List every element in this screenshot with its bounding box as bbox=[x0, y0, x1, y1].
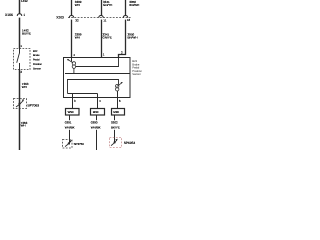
splice SP3750 dashed box bbox=[63, 140, 73, 149]
switch contact upper stub bbox=[19, 49, 21, 54]
splice SP3750 symbol curve bbox=[65, 141, 71, 146]
wire W4 circuit 3050 top segment bbox=[125, 0, 127, 15]
wire W1 to bottom edge bbox=[19, 109, 21, 151]
potentiometer R2 wiper arrowhead bbox=[121, 82, 123, 84]
potentiometer R2 wiper arrow shaft bbox=[117, 83, 122, 86]
label patch for wire W7 bbox=[111, 120, 125, 130]
wire W3 circuit 3341 top segment bbox=[101, 0, 103, 15]
splice SP6954 symbol arrowhead bbox=[115, 139, 118, 141]
wire W7 lower segment circuit 0302 bbox=[114, 115, 116, 138]
potentiometer R1 entry stub from pin 4 bbox=[71, 58, 73, 62]
component box B22 brake pedal position sensor (solid outline) bbox=[64, 58, 131, 98]
potentiometer R2 coil turn 1 bbox=[116, 84, 119, 87]
internal rail D joining pins 3 and 4 bbox=[68, 93, 98, 95]
wire W1 from connector X106 down to sensor box bbox=[19, 18, 21, 49]
potentiometer R1 wiper arrow shaft bbox=[68, 60, 73, 63]
pass-through grommet box M90 (right) bbox=[112, 109, 125, 116]
splice SP6954 symbol curve bbox=[111, 140, 117, 146]
internal wire from pin 2 to potentiometer R1 bbox=[76, 58, 119, 67]
wire W2 circuit 3309 top segment bbox=[71, 0, 73, 15]
pass-through grommet box W90 bbox=[66, 109, 80, 116]
label patch for wire W5 bbox=[64, 120, 78, 130]
wire W6 lower segment circuit 0300 bbox=[96, 115, 98, 150]
wire W2 below X203 to sensor box pin 4 bbox=[71, 20, 73, 58]
connector arc X203 on wire W2 bbox=[69, 15, 73, 17]
connector arc X203 on wire W3 bbox=[99, 15, 103, 17]
potentiometer R1 coil turn 2 bbox=[72, 65, 75, 68]
splice SP7063 symbol arrowhead bbox=[22, 99, 25, 101]
splice SP6954 junction dot bbox=[114, 141, 116, 143]
potentiometer R1 bottom stub to rail B bbox=[73, 68, 75, 73]
label B22 Brake Pedal Position Sensor (right box) bbox=[132, 60, 142, 76]
connector arc X203 on wire W4 bbox=[123, 15, 127, 17]
potentiometer R2 bottom stub to pin 6 bbox=[117, 91, 119, 98]
wire W3 below X203 to sensor box pin 1 bbox=[101, 20, 103, 58]
splice SP6954 dashed box (highlighted red) bbox=[110, 138, 122, 148]
wire W6 from sensor pin 4 bbox=[97, 98, 99, 109]
internal wire C to potentiometer R2 bbox=[68, 80, 119, 94]
potentiometer R2 coil turn 2 bbox=[116, 88, 119, 91]
wire W1 circuit 1492 upper segment bbox=[19, 0, 21, 14]
wire W5 into splice SP3750 bbox=[69, 140, 71, 145]
svg-text:Sensor: Sensor bbox=[132, 73, 141, 76]
splice SP7063 junction dot bbox=[18, 103, 20, 105]
internal rail B bbox=[65, 73, 130, 75]
connector X203 dashed body line bbox=[68, 17, 132, 19]
wire W4 below X203 with jog into sensor box pin 2 bbox=[119, 20, 126, 58]
pin 3 internal stub bbox=[72, 94, 74, 98]
splice SP3750 symbol arrowhead bbox=[69, 140, 72, 142]
switch lower stub bbox=[19, 63, 21, 70]
pin 4 internal stub bbox=[97, 94, 99, 98]
potentiometer R1 coil turn 1 bbox=[72, 62, 75, 65]
switch blade bbox=[17, 54, 20, 63]
component box B22 brake pedal position switch (dashed outline) bbox=[14, 49, 31, 70]
wire W7 from sensor pin 6 bbox=[117, 98, 119, 109]
wire W1 circuit 7363 lower to splice bbox=[19, 70, 21, 99]
pass-through grommet box M90 (middle) bbox=[91, 109, 105, 116]
label patch for wire W6 bbox=[90, 120, 104, 130]
wire W5 from sensor pin 3 bbox=[72, 98, 74, 109]
wire W5 lower segment circuit 0301 bbox=[69, 115, 71, 140]
splice SP3750 junction dot bbox=[68, 142, 70, 144]
splice SP7063 symbol curve bbox=[16, 101, 23, 107]
splice SP7063 dashed box bbox=[14, 99, 27, 109]
potentiometer R1 wiper arrowhead bbox=[67, 59, 69, 61]
wire W1 through splice SP7063 bbox=[19, 99, 21, 109]
connector X106 arc bbox=[17, 14, 21, 16]
wire W7 into splice SP6954 bbox=[114, 138, 116, 144]
